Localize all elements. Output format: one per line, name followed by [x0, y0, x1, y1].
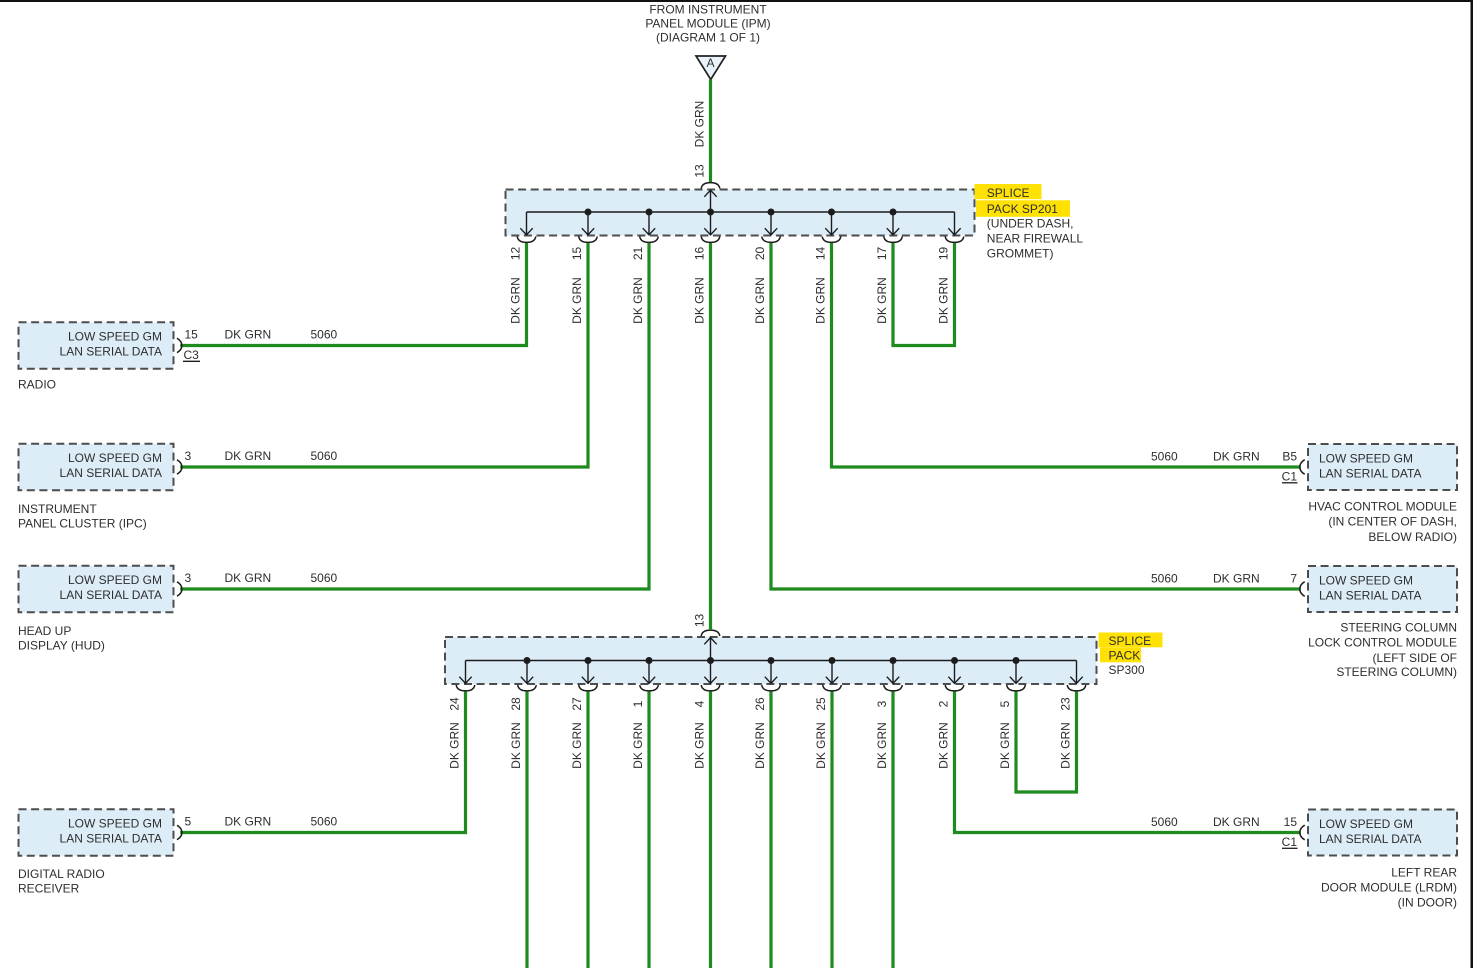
svg-text:7: 7 — [1290, 572, 1297, 586]
svg-text:15: 15 — [570, 247, 584, 261]
svg-text:DISPLAY (HUD): DISPLAY (HUD) — [18, 639, 105, 653]
svg-text:LEFT REAR: LEFT REAR — [1391, 866, 1457, 880]
svg-text:LAN SERIAL DATA: LAN SERIAL DATA — [60, 588, 162, 602]
svg-text:16: 16 — [693, 247, 707, 261]
svg-text:DK GRN: DK GRN — [570, 277, 584, 324]
svg-text:LAN SERIAL DATA: LAN SERIAL DATA — [60, 466, 162, 480]
svg-text:PACK: PACK — [1109, 648, 1141, 662]
svg-text:(DIAGRAM 1 OF 1): (DIAGRAM 1 OF 1) — [656, 30, 760, 44]
svg-text:DK GRN: DK GRN — [1213, 572, 1260, 586]
svg-text:LAN SERIAL DATA: LAN SERIAL DATA — [60, 345, 162, 359]
svg-text:5060: 5060 — [311, 449, 338, 463]
svg-text:LOW SPEED GM: LOW SPEED GM — [1319, 817, 1413, 831]
svg-text:(LEFT SIDE OF: (LEFT SIDE OF — [1373, 651, 1457, 665]
svg-text:DK GRN: DK GRN — [570, 722, 584, 769]
svg-text:DK GRN: DK GRN — [875, 277, 889, 324]
svg-text:DK GRN: DK GRN — [225, 815, 272, 829]
svg-text:DK GRN: DK GRN — [1059, 722, 1073, 769]
svg-text:DK GRN: DK GRN — [631, 277, 645, 324]
svg-text:SP300: SP300 — [1109, 663, 1145, 677]
svg-text:13: 13 — [692, 614, 706, 628]
svg-text:C3: C3 — [184, 348, 200, 362]
svg-text:DK GRN: DK GRN — [875, 722, 889, 769]
svg-text:B5: B5 — [1282, 450, 1297, 464]
svg-text:DK GRN: DK GRN — [225, 571, 272, 585]
svg-text:HEAD UP: HEAD UP — [18, 624, 71, 638]
svg-text:LAN SERIAL DATA: LAN SERIAL DATA — [1319, 832, 1421, 846]
svg-text:LOW SPEED GM: LOW SPEED GM — [68, 451, 162, 465]
svg-text:PACK SP201: PACK SP201 — [987, 202, 1058, 216]
svg-text:STEERING COLUMN): STEERING COLUMN) — [1336, 665, 1457, 679]
svg-text:RECEIVER: RECEIVER — [18, 882, 80, 896]
svg-text:DK GRN: DK GRN — [937, 722, 951, 769]
svg-text:LAN SERIAL DATA: LAN SERIAL DATA — [1319, 589, 1421, 603]
svg-text:RADIO: RADIO — [18, 378, 56, 392]
svg-text:DIGITAL RADIO: DIGITAL RADIO — [18, 867, 105, 881]
svg-text:5: 5 — [185, 815, 192, 829]
svg-text:DK GRN: DK GRN — [1213, 450, 1260, 464]
svg-text:5060: 5060 — [311, 815, 338, 829]
svg-text:FROM INSTRUMENT: FROM INSTRUMENT — [649, 3, 767, 17]
svg-text:LOCK CONTROL MODULE: LOCK CONTROL MODULE — [1308, 636, 1457, 650]
svg-text:LOW SPEED GM: LOW SPEED GM — [68, 573, 162, 587]
svg-text:27: 27 — [570, 697, 584, 711]
svg-text:DK GRN: DK GRN — [631, 722, 645, 769]
svg-text:DK GRN: DK GRN — [225, 449, 272, 463]
svg-text:17: 17 — [875, 247, 889, 261]
svg-text:LOW SPEED GM: LOW SPEED GM — [68, 330, 162, 344]
svg-text:DK GRN: DK GRN — [753, 277, 767, 324]
svg-text:2: 2 — [937, 700, 951, 707]
svg-text:DK GRN: DK GRN — [753, 722, 767, 769]
svg-text:15: 15 — [185, 328, 199, 342]
svg-text:21: 21 — [631, 247, 645, 261]
svg-text:(IN DOOR): (IN DOOR) — [1398, 896, 1457, 910]
svg-text:12: 12 — [509, 247, 523, 261]
svg-text:BELOW RADIO): BELOW RADIO) — [1368, 530, 1457, 544]
svg-text:5060: 5060 — [1151, 450, 1178, 464]
svg-text:GROMMET): GROMMET) — [987, 246, 1054, 260]
svg-text:C1: C1 — [1282, 470, 1298, 484]
svg-text:5060: 5060 — [311, 328, 338, 342]
svg-text:DK GRN: DK GRN — [693, 277, 707, 324]
svg-text:INSTRUMENT: INSTRUMENT — [18, 502, 97, 516]
svg-text:DK GRN: DK GRN — [509, 277, 523, 324]
svg-text:DK GRN: DK GRN — [937, 277, 951, 324]
svg-text:A: A — [706, 56, 714, 70]
svg-text:(IN CENTER OF DASH,: (IN CENTER OF DASH, — [1328, 515, 1457, 529]
svg-text:3: 3 — [185, 449, 192, 463]
svg-text:DK GRN: DK GRN — [692, 101, 706, 148]
svg-text:DK GRN: DK GRN — [1213, 815, 1260, 829]
svg-text:1: 1 — [631, 700, 645, 707]
svg-text:STEERING COLUMN: STEERING COLUMN — [1340, 621, 1457, 635]
svg-text:5060: 5060 — [311, 571, 338, 585]
svg-text:15: 15 — [1284, 815, 1298, 829]
svg-text:HVAC CONTROL MODULE: HVAC CONTROL MODULE — [1308, 499, 1457, 513]
svg-text:23: 23 — [1059, 697, 1073, 711]
svg-text:DK GRN: DK GRN — [448, 722, 462, 769]
svg-text:LOW SPEED GM: LOW SPEED GM — [68, 817, 162, 831]
svg-text:3: 3 — [185, 571, 192, 585]
svg-text:5060: 5060 — [1151, 815, 1178, 829]
svg-text:14: 14 — [814, 247, 828, 261]
svg-text:DK GRN: DK GRN — [693, 722, 707, 769]
svg-text:NEAR FIREWALL: NEAR FIREWALL — [987, 232, 1084, 246]
svg-text:3: 3 — [875, 700, 889, 707]
svg-text:20: 20 — [753, 247, 767, 261]
svg-text:SPLICE: SPLICE — [1109, 634, 1152, 648]
svg-text:26: 26 — [753, 697, 767, 711]
svg-text:(UNDER DASH,: (UNDER DASH, — [987, 217, 1074, 231]
svg-text:28: 28 — [509, 697, 523, 711]
svg-text:24: 24 — [448, 697, 462, 711]
svg-text:C1: C1 — [1282, 835, 1298, 849]
svg-text:LAN SERIAL DATA: LAN SERIAL DATA — [1319, 467, 1421, 481]
svg-text:LAN SERIAL DATA: LAN SERIAL DATA — [60, 832, 162, 846]
svg-text:DK GRN: DK GRN — [814, 722, 828, 769]
svg-text:DK GRN: DK GRN — [814, 277, 828, 324]
svg-text:5060: 5060 — [1151, 572, 1178, 586]
svg-text:5: 5 — [998, 700, 1012, 707]
svg-text:DK GRN: DK GRN — [225, 328, 272, 342]
svg-text:19: 19 — [937, 247, 951, 261]
svg-text:LOW SPEED GM: LOW SPEED GM — [1319, 452, 1413, 466]
svg-text:DOOR MODULE (LRDM): DOOR MODULE (LRDM) — [1321, 881, 1457, 895]
svg-text:25: 25 — [814, 697, 828, 711]
svg-text:PANEL MODULE (IPM): PANEL MODULE (IPM) — [645, 16, 770, 30]
svg-text:LOW SPEED GM: LOW SPEED GM — [1319, 574, 1413, 588]
svg-text:DK GRN: DK GRN — [998, 722, 1012, 769]
svg-text:PANEL CLUSTER (IPC): PANEL CLUSTER (IPC) — [18, 517, 147, 531]
svg-text:SPLICE: SPLICE — [987, 186, 1030, 200]
svg-text:4: 4 — [693, 700, 707, 707]
svg-text:DK GRN: DK GRN — [509, 722, 523, 769]
svg-text:13: 13 — [692, 164, 706, 178]
